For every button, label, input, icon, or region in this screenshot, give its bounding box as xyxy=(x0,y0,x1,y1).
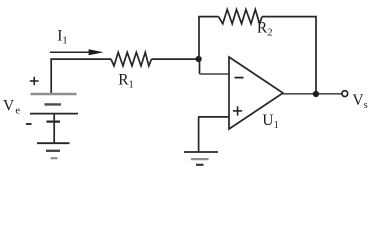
ground (op-amp non-inverting input) xyxy=(184,152,218,165)
wire: node A up to feedback top wire xyxy=(198,17,200,59)
svg-text:Vs: Vs xyxy=(352,92,367,111)
wire: non-inverting input down to ground xyxy=(198,117,200,152)
wire: right vertical down to output node xyxy=(315,17,317,94)
node A (junction dot) xyxy=(196,56,202,62)
op-amp U1 xyxy=(229,57,283,129)
svg-text:R1: R1 xyxy=(118,71,134,90)
polarity + sign of Ve xyxy=(30,77,39,85)
ground (under battery) xyxy=(37,143,70,158)
wire: battery bottom to ground xyxy=(53,114,55,143)
wire: top feedback left segment xyxy=(198,16,218,18)
current arrow I1 xyxy=(50,49,104,55)
wire: main input horizontal from source to node A xyxy=(51,58,112,60)
voltage source Ve (battery) xyxy=(30,94,78,122)
svg-text:Ve: Ve xyxy=(3,97,20,116)
minus sign at inverting input xyxy=(235,77,244,79)
wire: vertical from input wire down to battery top plate xyxy=(50,58,52,93)
wire: non-inverting input horizontal xyxy=(198,116,229,118)
polarity - sign of Ve xyxy=(26,123,32,125)
node: output junction dot xyxy=(313,91,319,97)
wire: node A down to inverting input level xyxy=(199,59,201,74)
wire: top feedback right segment xyxy=(262,16,317,18)
plus sign at non-inverting input xyxy=(233,106,242,115)
svg-text:R2: R2 xyxy=(257,19,273,38)
svg-text:I1: I1 xyxy=(57,27,67,46)
svg-text:U1: U1 xyxy=(262,112,278,131)
resistor R1 xyxy=(111,52,152,66)
output terminal (open circle) xyxy=(342,91,348,97)
wire: output from op-amp apex to terminal xyxy=(283,93,342,95)
resistor R2 xyxy=(219,10,263,24)
wire: inverting input horizontal xyxy=(200,73,230,75)
wire: R1 to node A xyxy=(152,58,198,60)
